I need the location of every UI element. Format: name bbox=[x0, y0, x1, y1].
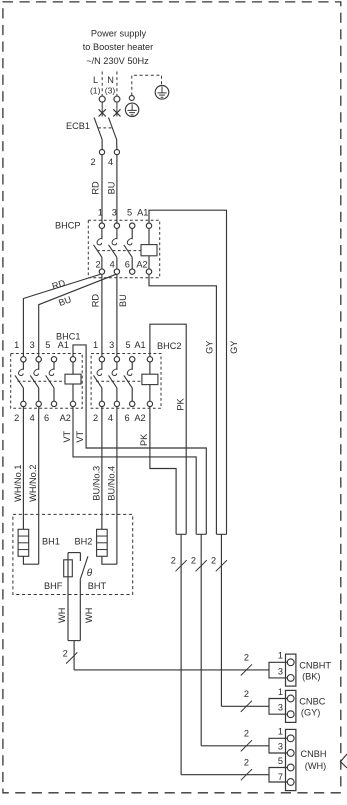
terminal X mark L bbox=[99, 109, 106, 116]
svg-text:BU: BU bbox=[107, 182, 117, 195]
svg-text:BU/No.4: BU/No.4 bbox=[106, 466, 116, 501]
circuit breaker ECB1 label bbox=[66, 121, 90, 131]
contactor BHCP enclosure (dashed box) bbox=[88, 220, 159, 278]
BHC2 contact 3-4 bbox=[109, 357, 120, 407]
svg-text:A2: A2 bbox=[60, 413, 71, 423]
svg-text:6: 6 bbox=[44, 413, 49, 423]
svg-text:BHC2: BHC2 bbox=[157, 341, 182, 351]
CNBC colour label (GY) bbox=[301, 708, 320, 718]
svg-text:1: 1 bbox=[278, 687, 283, 697]
circuit breaker ECB1 pole 2 (N) bbox=[109, 118, 120, 155]
BHC1 pin label 2 bbox=[14, 413, 19, 423]
BHC1 contact 5-6 bbox=[46, 357, 57, 407]
BHCP pin label 2 bbox=[95, 259, 100, 269]
svg-text:5: 5 bbox=[278, 756, 283, 766]
cable core-count slash C bbox=[216, 560, 227, 571]
BHC1 contact 3-4 bbox=[30, 357, 41, 407]
wire label BU/No.3 bbox=[91, 466, 101, 501]
svg-text:WH: WH bbox=[57, 608, 67, 623]
wire BU/No.3: BHC2-2 down to BH2 bbox=[101, 407, 103, 530]
wire label GY (right) bbox=[229, 341, 239, 354]
svg-text:2: 2 bbox=[63, 649, 68, 659]
BHC2 pin label 1 bbox=[93, 340, 98, 350]
wire PK: BHC2-A2 down-right-down to cable A bbox=[150, 407, 176, 535]
svg-text:PK: PK bbox=[175, 398, 185, 411]
svg-text:θ: θ bbox=[87, 568, 93, 579]
BHC2 pin label A2 bbox=[134, 413, 145, 423]
heating element BH2 bbox=[97, 529, 117, 564]
contactor BHC2 enclosure (dashed box) bbox=[91, 354, 161, 409]
CNBHT name label bbox=[299, 660, 331, 670]
svg-text:RD: RD bbox=[90, 294, 100, 308]
BH2 label bbox=[75, 537, 93, 547]
svg-text:2: 2 bbox=[244, 757, 249, 767]
ECB1 pin label 2 bbox=[90, 157, 95, 167]
svg-text:1: 1 bbox=[98, 208, 103, 218]
svg-text:2: 2 bbox=[171, 556, 176, 566]
svg-text:RD: RD bbox=[91, 181, 101, 195]
wire label RD bbox=[91, 181, 101, 195]
circuit breaker ECB1 pole 1 (L) bbox=[94, 118, 105, 155]
svg-text:(WH): (WH) bbox=[305, 761, 326, 771]
BHCP contact 1-2 bbox=[94, 223, 105, 274]
terminal X mark N bbox=[113, 109, 120, 116]
svg-text:4: 4 bbox=[30, 413, 35, 423]
svg-text:(GY): (GY) bbox=[301, 708, 320, 718]
svg-text:2: 2 bbox=[95, 259, 100, 269]
svg-text:RD: RD bbox=[51, 278, 67, 292]
svg-text:2: 2 bbox=[244, 653, 249, 663]
svg-text:A1: A1 bbox=[137, 208, 148, 218]
svg-text:ECB1: ECB1 bbox=[66, 121, 90, 131]
svg-text:(3): (3) bbox=[105, 86, 116, 96]
CNBH pin label 3 bbox=[278, 742, 283, 752]
svg-text:BHT: BHT bbox=[88, 581, 107, 591]
CNBH name label bbox=[301, 749, 327, 759]
BHC1 pin label A2 bbox=[60, 413, 71, 423]
svg-text:A2: A2 bbox=[136, 259, 147, 269]
svg-text:2: 2 bbox=[93, 413, 98, 423]
ground symbol PE (below terminal) bbox=[125, 103, 138, 116]
CNBH colour label (WH) bbox=[305, 761, 326, 771]
cable merge C (GY pair) bbox=[216, 534, 226, 706]
BHC2 mechanical link (dashed) bbox=[96, 380, 142, 382]
contactor BHC2 label bbox=[157, 341, 182, 351]
BH1 label bbox=[42, 537, 60, 547]
wire BU/No.4: BHC2-4 down to BH2 return bbox=[116, 407, 118, 565]
svg-text:BU/No.3: BU/No.3 bbox=[91, 466, 101, 501]
svg-text:GY: GY bbox=[205, 341, 215, 354]
wire BU diagonal: BHCP-4 to BHC1-3 bbox=[39, 274, 117, 356]
cable core-count label 2 (A) bbox=[171, 556, 176, 566]
connector feed slash CNBH-b bbox=[241, 769, 252, 780]
contactor BHC1 enclosure (dashed box) bbox=[11, 354, 83, 409]
connector feed slash CNBH-a bbox=[241, 740, 252, 751]
svg-text:6: 6 bbox=[125, 259, 130, 269]
connector feed label 2 (CNBHT) bbox=[244, 653, 249, 663]
CNBC pin label 3 bbox=[278, 703, 283, 713]
svg-text:2: 2 bbox=[244, 729, 249, 739]
svg-text:VT: VT bbox=[62, 431, 72, 443]
wire GY: BHCP-A2 down and right, down to cable C bbox=[149, 274, 216, 534]
wire label BU (diagonal) bbox=[57, 294, 72, 308]
svg-text:(BK): (BK) bbox=[302, 671, 320, 681]
svg-text:~/N 230V 50Hz: ~/N 230V 50Hz bbox=[86, 56, 149, 66]
BHC2 pin label 3 bbox=[109, 340, 114, 350]
svg-text:N: N bbox=[107, 75, 114, 85]
BHC1 pin label 3 bbox=[30, 340, 35, 350]
svg-text:5: 5 bbox=[127, 208, 132, 218]
wire label GY (left) bbox=[205, 341, 215, 354]
svg-text:CNBHT: CNBHT bbox=[299, 660, 331, 670]
svg-text:BHCP: BHCP bbox=[55, 221, 81, 231]
cable merge A (PK pair) bbox=[176, 534, 186, 774]
cable core-count slash WH bbox=[66, 652, 77, 663]
BHCP mechanical link (dashed) bbox=[97, 250, 141, 252]
BHCP pin label 6 bbox=[125, 259, 130, 269]
connector CNBH feed wire 5-7 bbox=[181, 774, 269, 776]
connector feed slash CNBC bbox=[241, 701, 252, 712]
BHC1 pin label 1 bbox=[14, 340, 19, 350]
CNBH pin label 5 bbox=[278, 756, 283, 766]
svg-text:VT: VT bbox=[75, 431, 85, 443]
connector CNBHT (BK) bbox=[269, 654, 296, 686]
svg-text:BU: BU bbox=[118, 294, 128, 307]
title: Power supply to Booster heater ~/N 230V 50Hz bbox=[83, 28, 153, 66]
cable core-count label 2 (B) bbox=[191, 556, 196, 566]
BHC1 pin label 5 bbox=[45, 340, 50, 350]
ECB1 pin label 4 bbox=[108, 157, 113, 167]
BHCP pin label 1 bbox=[98, 208, 103, 218]
cable merge WH (2-core) bbox=[68, 641, 80, 670]
wire label WH/No.2 bbox=[28, 465, 38, 502]
BHT label bbox=[88, 581, 107, 591]
wire PK: BHC2-A1 up-right-down to cable A bbox=[150, 324, 186, 534]
wire label PK (left) bbox=[139, 433, 149, 446]
svg-text:2: 2 bbox=[90, 157, 95, 167]
wire label BU bbox=[107, 182, 117, 195]
svg-text:to Booster heater: to Booster heater bbox=[83, 42, 153, 52]
cable core-count label 2 (C) bbox=[211, 556, 216, 566]
node N supply terminal (3) bbox=[105, 72, 120, 117]
connector CNBC feed wire bbox=[221, 705, 269, 707]
svg-text:4: 4 bbox=[110, 259, 115, 269]
BHC1 contact 1-2 bbox=[15, 357, 26, 407]
svg-text:2: 2 bbox=[191, 556, 196, 566]
svg-text:WH/No.2: WH/No.2 bbox=[28, 465, 38, 502]
wire BU: BHCP-4 down to BHC2-3 bbox=[116, 274, 118, 356]
ECB1 mechanical link (dashed) bbox=[98, 127, 112, 129]
CNBHT pin label 3 bbox=[278, 666, 283, 676]
wire VT: BHC1-A1 up-right-down to cable B bbox=[73, 345, 206, 534]
cable core-count slash B bbox=[196, 560, 207, 571]
wire GY: BHCP-A1 up and right, down to cable C bbox=[149, 210, 227, 534]
wire label VT (right) bbox=[75, 431, 85, 443]
cable merge B (VT pair) bbox=[196, 534, 206, 746]
BHC2 pin label A1 bbox=[134, 340, 145, 350]
BHC2 pin label 2 bbox=[93, 413, 98, 423]
BHCP pin label 5 bbox=[127, 208, 132, 218]
svg-text:WH/No.1: WH/No.1 bbox=[13, 465, 23, 502]
svg-text:A1: A1 bbox=[134, 340, 145, 350]
connector feed label 2 (CNBC) bbox=[244, 689, 249, 699]
CNBHT colour label (BK) bbox=[302, 671, 320, 681]
cable core-count label 2 (WH) bbox=[63, 649, 68, 659]
svg-text:A2: A2 bbox=[134, 413, 145, 423]
BHCP contact 3-4 bbox=[109, 223, 120, 274]
heating element BH1 bbox=[18, 529, 39, 564]
svg-text:WH: WH bbox=[84, 608, 94, 623]
BHF label bbox=[44, 581, 63, 591]
ground symbol chassis (right) bbox=[155, 86, 169, 100]
svg-text:Power supply: Power supply bbox=[91, 28, 147, 38]
CNBC name label bbox=[299, 697, 325, 707]
svg-text:3: 3 bbox=[278, 742, 283, 752]
svg-text:GY: GY bbox=[229, 341, 239, 354]
svg-text:3: 3 bbox=[30, 340, 35, 350]
svg-text:5: 5 bbox=[45, 340, 50, 350]
wire label WH (left) bbox=[57, 608, 67, 623]
svg-text:1: 1 bbox=[278, 651, 283, 661]
svg-text:BH2: BH2 bbox=[75, 537, 93, 547]
wire label RD (vertical) bbox=[90, 294, 100, 308]
svg-text:BHF: BHF bbox=[44, 581, 63, 591]
BHCP pin label A1 bbox=[137, 208, 148, 218]
wire RD: BHCP-2 down to BHC2-1 bbox=[101, 274, 103, 356]
off-page chevron (right border) bbox=[341, 754, 347, 768]
BHC2 pin label 6 bbox=[124, 413, 129, 423]
wire RD: ECB1-2 to BHCP-1 bbox=[101, 155, 103, 223]
BHCP pin label A2 bbox=[136, 259, 147, 269]
connector CNBC (GY) bbox=[269, 690, 296, 722]
thermal fuse BHF bbox=[64, 553, 81, 641]
wire RD diagonal: BHCP-2 to BHC1-1 bbox=[23, 274, 101, 357]
svg-text:2: 2 bbox=[14, 413, 19, 423]
BHCP coil A1-A2 bbox=[141, 223, 157, 274]
svg-text:CNBH: CNBH bbox=[301, 749, 327, 759]
svg-text:2: 2 bbox=[211, 556, 216, 566]
BHC1 coil A1-A2 bbox=[65, 357, 81, 407]
CNBC pin label 1 bbox=[278, 687, 283, 697]
node L supply terminal (1) bbox=[90, 72, 105, 117]
svg-text:BH1: BH1 bbox=[42, 537, 60, 547]
BHC2 contact 5-6 bbox=[124, 357, 135, 407]
svg-text:A1: A1 bbox=[58, 340, 69, 350]
cable core-count slash A bbox=[176, 560, 187, 571]
svg-text:1: 1 bbox=[93, 340, 98, 350]
svg-text:4: 4 bbox=[108, 413, 113, 423]
wire VT: BHC1-A2 down-right-down to cable B bbox=[73, 407, 196, 535]
svg-text:4: 4 bbox=[108, 157, 113, 167]
svg-text:3: 3 bbox=[112, 208, 117, 218]
booster heater enclosure (dashed box) bbox=[13, 514, 133, 594]
CNBH pin label 1 bbox=[278, 727, 283, 737]
svg-text:5: 5 bbox=[125, 340, 130, 350]
BHCP pin label 4 bbox=[110, 259, 115, 269]
svg-text:1: 1 bbox=[278, 727, 283, 737]
svg-text:2: 2 bbox=[244, 689, 249, 699]
wire label WH (right) bbox=[84, 608, 94, 623]
contactor BHCP label bbox=[55, 221, 81, 231]
BHC2 pin label 5 bbox=[125, 340, 130, 350]
svg-text:3: 3 bbox=[109, 340, 114, 350]
svg-text:3: 3 bbox=[278, 703, 283, 713]
BHC1 pin label 4 bbox=[30, 413, 35, 423]
svg-text:L: L bbox=[93, 75, 98, 85]
wire WH/No.2: BHC1-4 down to BH1 return bbox=[38, 407, 40, 565]
BHCP pin label 3 bbox=[112, 208, 117, 218]
wire label BU/No.4 bbox=[106, 466, 116, 501]
connector CNBH feed wire 1-3 bbox=[201, 745, 269, 747]
BHC2 contact 1-2 bbox=[94, 357, 105, 407]
CNBH pin label 7 bbox=[278, 772, 283, 782]
connector CNBH (WH) bbox=[269, 729, 296, 790]
BHT theta symbol bbox=[87, 568, 93, 579]
contactor BHC1 label bbox=[56, 331, 81, 341]
wire label VT (left) bbox=[62, 431, 72, 443]
BHC2 pin label 4 bbox=[108, 413, 113, 423]
connector feed slash CNBHT bbox=[241, 664, 252, 675]
BHC1 mechanical link (dashed) bbox=[18, 380, 66, 382]
BHC1 pin label A1 bbox=[58, 340, 69, 350]
connector feed label 2 (CNBH-a) bbox=[244, 729, 249, 739]
svg-text:6: 6 bbox=[124, 413, 129, 423]
svg-text:CNBC: CNBC bbox=[299, 697, 325, 707]
wire label WH/No.1 bbox=[13, 465, 23, 502]
thermostat BHT bbox=[80, 553, 88, 641]
svg-text:7: 7 bbox=[278, 772, 283, 782]
BHC1 pin label 6 bbox=[44, 413, 49, 423]
wire label RD (diagonal) bbox=[51, 278, 67, 292]
node PE terminal with dashed link bbox=[129, 75, 161, 100]
wire BU: ECB1-4 to BHCP-3 bbox=[116, 155, 118, 223]
CNBHT pin label 1 bbox=[278, 651, 283, 661]
wire WH/No.1: BHC1-2 down to BH1 bbox=[22, 407, 24, 530]
BHCP contact 5-6 bbox=[124, 223, 135, 274]
wire WH cable to CNBHT bbox=[74, 669, 269, 671]
svg-text:PK: PK bbox=[139, 433, 149, 446]
connector feed label 2 (CNBH-b) bbox=[244, 757, 249, 767]
BHC2 coil A1-A2 bbox=[142, 357, 158, 407]
wire label BU (vertical) bbox=[118, 294, 128, 307]
wire label PK (right) bbox=[175, 398, 185, 411]
svg-text:1: 1 bbox=[14, 340, 19, 350]
svg-text:(1): (1) bbox=[90, 86, 101, 96]
svg-text:3: 3 bbox=[278, 666, 283, 676]
